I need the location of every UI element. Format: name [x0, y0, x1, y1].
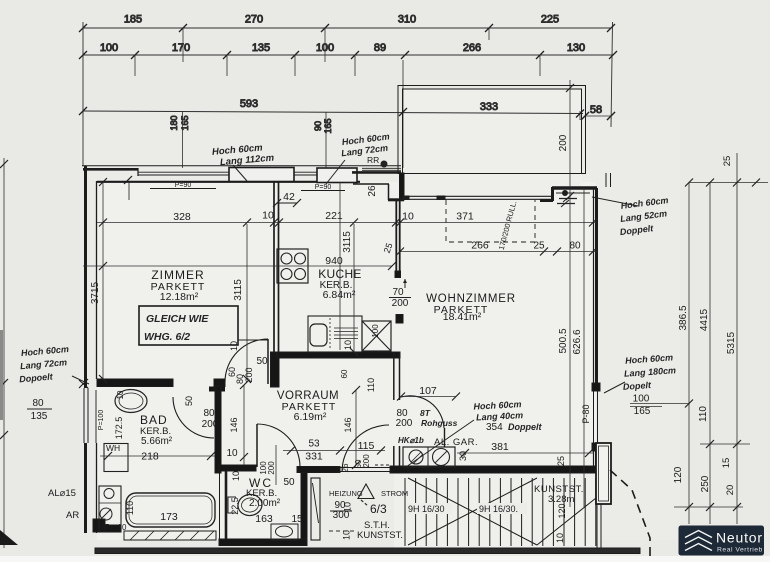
svg-text:Neutor: Neutor — [716, 530, 763, 546]
svg-text:165: 165 — [634, 406, 651, 417]
svg-text:15: 15 — [291, 514, 303, 525]
svg-text:185: 185 — [124, 14, 142, 26]
svg-text:15: 15 — [721, 458, 732, 469]
svg-text:9H 16/30.: 9H 16/30. — [479, 504, 518, 514]
svg-text:200: 200 — [392, 298, 409, 309]
svg-text:80: 80 — [32, 398, 44, 409]
svg-text:AL⌀15: AL⌀15 — [48, 488, 76, 499]
svg-text:RR: RR — [367, 155, 379, 165]
svg-text:KUCHE: KUCHE — [318, 267, 362, 281]
svg-text:10: 10 — [402, 211, 414, 223]
svg-text:HEIZUNG: HEIZUNG — [329, 489, 363, 498]
svg-text:10: 10 — [555, 533, 565, 543]
svg-text:10: 10 — [231, 471, 241, 481]
svg-text:200: 200 — [362, 454, 371, 468]
svg-text:12.18m²: 12.18m² — [160, 291, 199, 303]
svg-text:328: 328 — [173, 211, 191, 223]
svg-text:200: 200 — [244, 367, 254, 382]
svg-text:371: 371 — [456, 211, 474, 223]
svg-text:165: 165 — [180, 115, 190, 130]
svg-text:331: 331 — [305, 451, 323, 463]
svg-text:90: 90 — [313, 121, 323, 131]
svg-text:120: 120 — [557, 503, 567, 518]
svg-text:381: 381 — [491, 441, 509, 453]
svg-text:4415: 4415 — [699, 308, 710, 331]
svg-text:170: 170 — [172, 42, 190, 54]
svg-text:3115: 3115 — [233, 279, 244, 301]
svg-text:HK⌀1b: HK⌀1b — [398, 436, 424, 445]
svg-text:9H 16/30: 9H 16/30 — [408, 504, 445, 514]
svg-text:135: 135 — [252, 42, 270, 54]
svg-text:50: 50 — [184, 396, 194, 406]
svg-text:STROM: STROM — [381, 489, 408, 498]
svg-text:130: 130 — [567, 42, 585, 54]
svg-text:10: 10 — [343, 340, 353, 350]
svg-text:270: 270 — [245, 14, 263, 26]
svg-text:20: 20 — [725, 485, 736, 496]
svg-text:8T: 8T — [420, 408, 431, 418]
svg-text:386.5: 386.5 — [678, 305, 689, 330]
svg-text:354: 354 — [486, 422, 503, 433]
svg-text:2.00m²: 2.00m² — [249, 498, 281, 509]
svg-text:172.5: 172.5 — [114, 417, 124, 440]
svg-text:Real Vertrieb: Real Vertrieb — [717, 547, 763, 554]
svg-text:6/3: 6/3 — [370, 502, 387, 516]
svg-text:10: 10 — [116, 390, 125, 399]
svg-text:333: 333 — [480, 101, 498, 113]
svg-text:100: 100 — [316, 42, 334, 54]
svg-text:626.6: 626.6 — [572, 329, 583, 354]
svg-text:AR: AR — [66, 510, 79, 521]
svg-text:26: 26 — [341, 463, 350, 472]
svg-text:310: 310 — [398, 14, 416, 26]
svg-text:18.41m²: 18.41m² — [443, 311, 482, 323]
svg-text:110: 110 — [698, 406, 709, 422]
svg-text:200: 200 — [558, 134, 569, 151]
svg-text:P-80: P-80 — [581, 404, 591, 423]
svg-text:200: 200 — [267, 461, 276, 475]
svg-text:Rohguss: Rohguss — [421, 418, 458, 428]
svg-text:146: 146 — [229, 417, 239, 432]
svg-text:WHG. 6/2: WHG. 6/2 — [144, 331, 190, 343]
svg-text:10: 10 — [343, 502, 353, 512]
svg-text:Doppelt: Doppelt — [508, 422, 542, 432]
svg-text:Dopelt: Dopelt — [623, 380, 653, 392]
svg-text:3115: 3115 — [342, 231, 353, 253]
svg-text:25: 25 — [556, 456, 566, 466]
svg-text:25: 25 — [533, 241, 545, 252]
svg-text:163: 163 — [255, 513, 273, 525]
svg-text:100: 100 — [371, 324, 380, 338]
svg-text:107: 107 — [419, 385, 437, 397]
svg-text:6.84m²: 6.84m² — [323, 289, 356, 301]
svg-text:218: 218 — [141, 451, 159, 463]
svg-text:60: 60 — [340, 369, 349, 378]
svg-text:26: 26 — [367, 185, 378, 197]
svg-text:10: 10 — [262, 210, 274, 222]
svg-text:80: 80 — [569, 241, 581, 252]
svg-text:5.66m²: 5.66m² — [141, 436, 173, 447]
svg-text:P=100: P=100 — [98, 410, 105, 431]
svg-text:266: 266 — [471, 240, 489, 252]
svg-text:200: 200 — [396, 418, 413, 429]
svg-text:80: 80 — [203, 408, 215, 419]
svg-text:25: 25 — [722, 156, 733, 167]
svg-text:50: 50 — [256, 356, 268, 367]
svg-text:35: 35 — [101, 523, 110, 532]
svg-text:593: 593 — [240, 98, 258, 110]
svg-text:120: 120 — [673, 466, 684, 483]
svg-text:53: 53 — [308, 439, 320, 450]
svg-text:ZIMMER: ZIMMER — [151, 268, 204, 282]
svg-text:146: 146 — [343, 417, 353, 432]
svg-text:P=90: P=90 — [175, 182, 192, 189]
svg-text:940: 940 — [325, 255, 343, 267]
svg-text:P=90: P=90 — [315, 184, 332, 191]
svg-text:110: 110 — [366, 378, 376, 392]
svg-text:6.19m²: 6.19m² — [294, 411, 327, 423]
svg-text:266: 266 — [463, 42, 481, 54]
svg-text:200: 200 — [202, 419, 219, 430]
svg-text:22.5: 22.5 — [230, 497, 240, 515]
svg-text:221: 221 — [325, 210, 343, 222]
svg-text:180: 180 — [169, 115, 179, 130]
svg-text:10: 10 — [118, 523, 127, 532]
svg-text:173: 173 — [160, 511, 178, 523]
svg-text:WH: WH — [106, 443, 120, 453]
svg-text:50: 50 — [283, 477, 295, 488]
svg-text:100: 100 — [633, 394, 650, 405]
svg-text:3.28m: 3.28m — [548, 494, 574, 505]
svg-text:3715: 3715 — [90, 281, 101, 304]
svg-text:70: 70 — [392, 287, 404, 298]
svg-text:250: 250 — [700, 475, 711, 492]
svg-text:GLEICH WIE: GLEICH WIE — [146, 313, 209, 325]
svg-text:30: 30 — [458, 451, 468, 461]
svg-text:5315: 5315 — [726, 331, 737, 354]
svg-text:10: 10 — [226, 448, 238, 459]
svg-text:165: 165 — [323, 118, 333, 133]
svg-text:89: 89 — [374, 42, 386, 54]
svg-text:KUNSTST.: KUNSTST. — [357, 530, 403, 541]
svg-text:58: 58 — [590, 104, 602, 116]
svg-text:BAD: BAD — [140, 413, 168, 427]
svg-text:100: 100 — [100, 42, 118, 54]
svg-text:110: 110 — [125, 501, 135, 515]
svg-text:115: 115 — [358, 440, 375, 452]
svg-text:42: 42 — [283, 191, 295, 203]
svg-text:225: 225 — [541, 14, 559, 26]
svg-text:135: 135 — [31, 411, 48, 422]
svg-text:500.5: 500.5 — [558, 328, 569, 353]
